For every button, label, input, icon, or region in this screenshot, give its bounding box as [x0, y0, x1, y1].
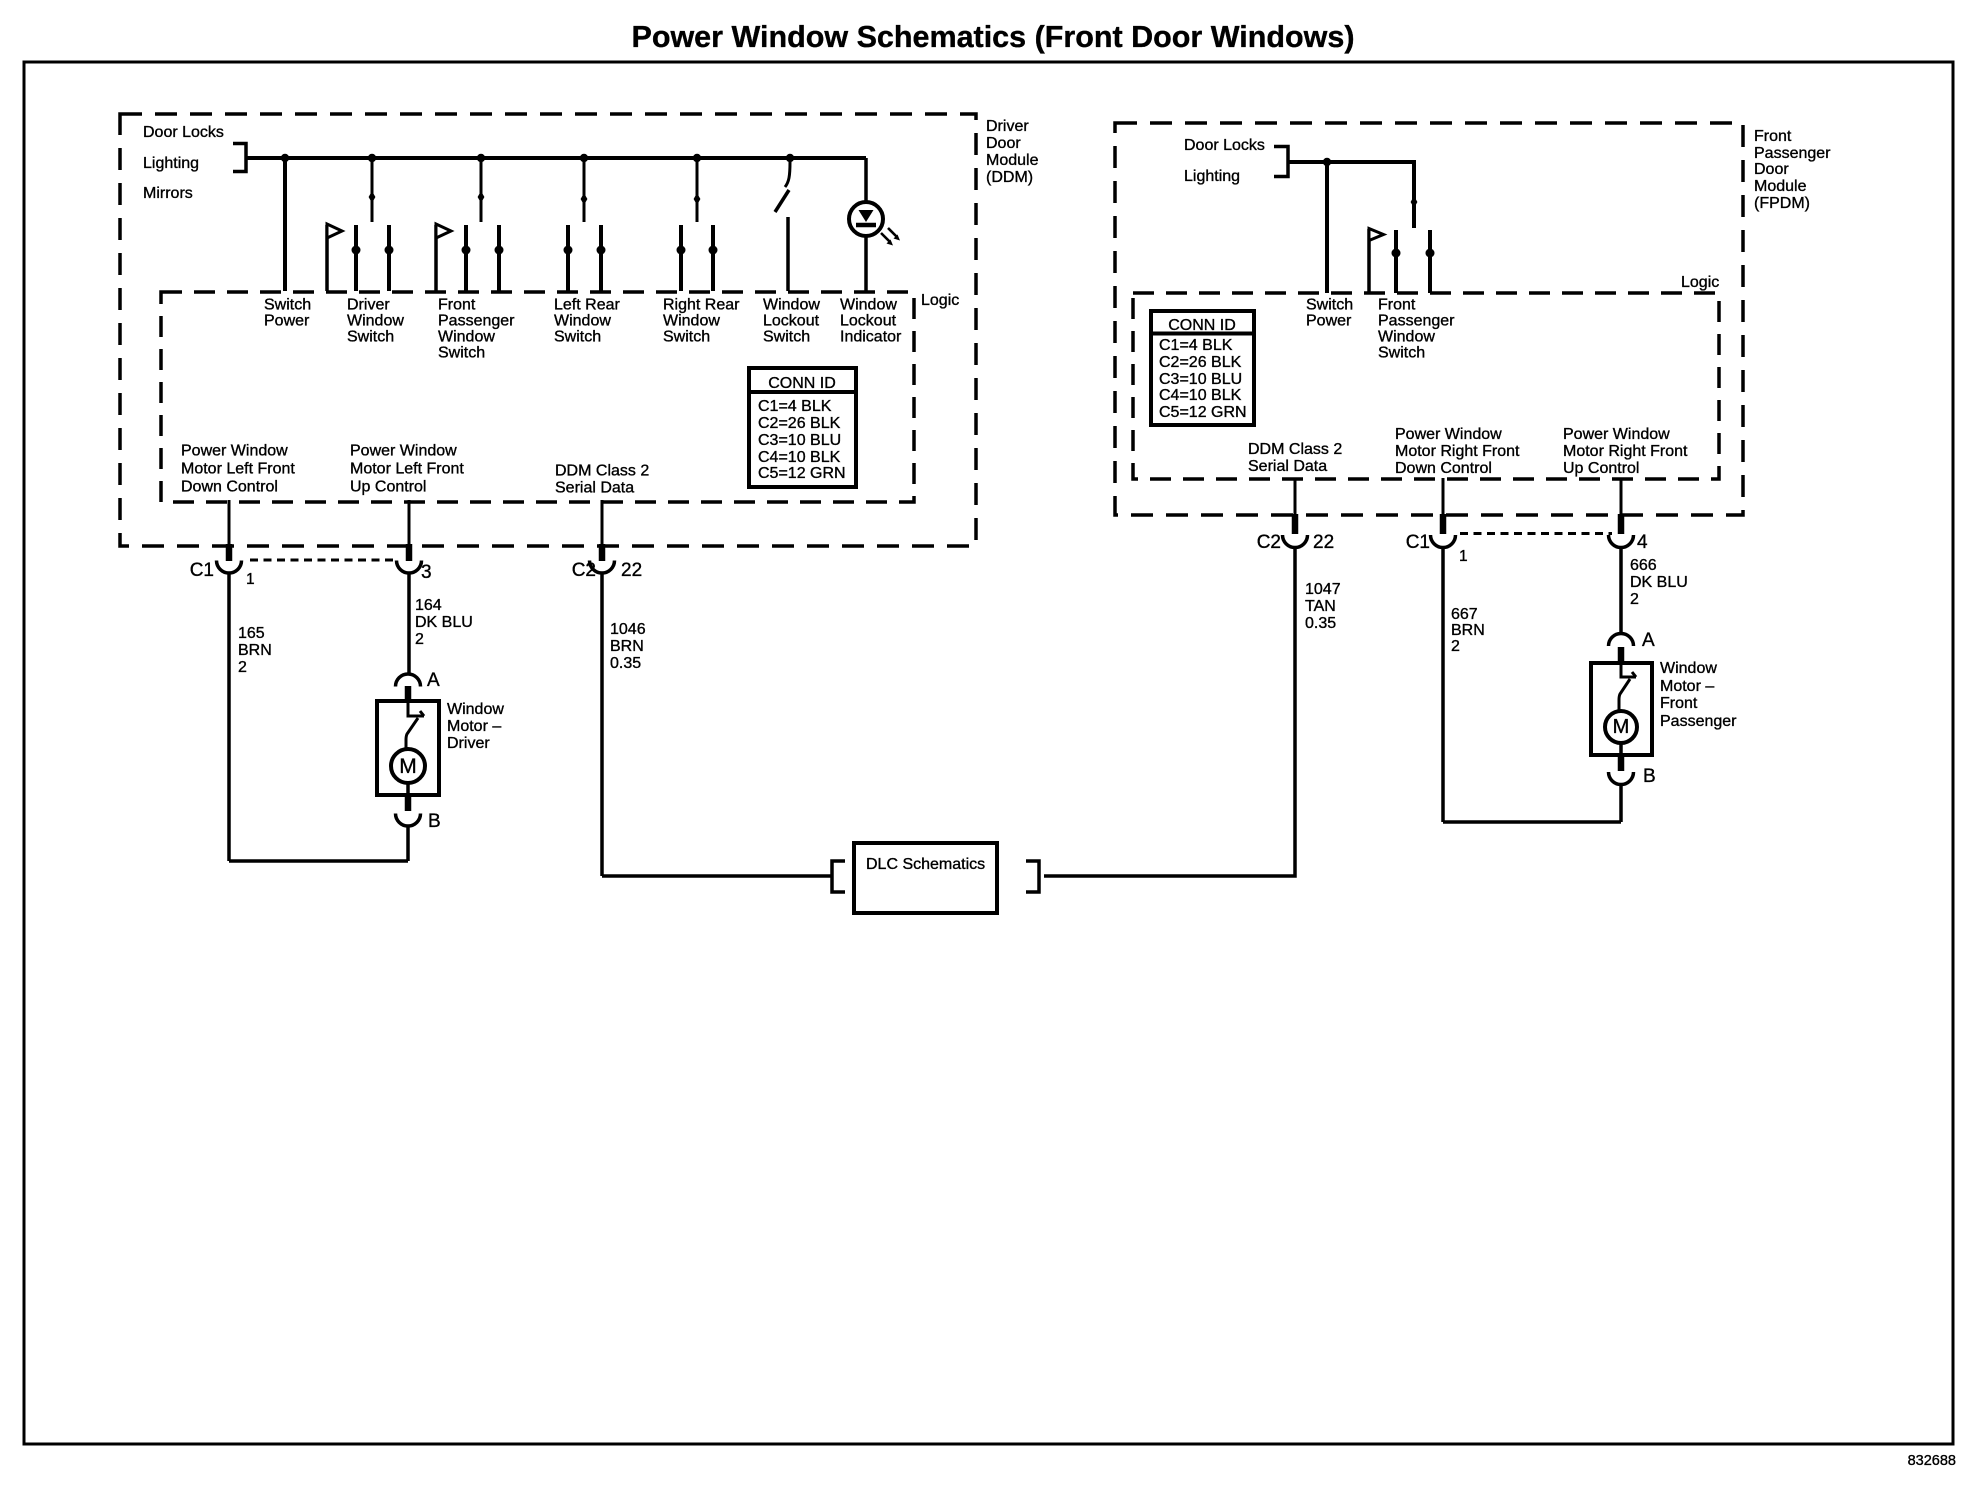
junction dot switch power	[281, 154, 289, 162]
svg-text:Door Locks: Door Locks	[1184, 137, 1265, 154]
svg-text:2: 2	[415, 631, 424, 648]
svg-text:Window: Window	[763, 297, 820, 314]
node labels Door Locks / Lighting / Mirrors	[143, 124, 224, 202]
svg-text:2: 2	[1630, 591, 1639, 608]
connector C2 arc FPDM	[1283, 535, 1308, 548]
wire serial data out of FPDM logic	[1294, 478, 1297, 514]
connector C1 arc	[217, 561, 242, 574]
svg-text:Switch: Switch	[438, 345, 485, 362]
svg-text:Left Rear: Left Rear	[554, 297, 620, 314]
label Driver Window Switch	[347, 297, 404, 346]
driver window switch S1	[327, 158, 394, 291]
svg-text:Motor –: Motor –	[1660, 678, 1714, 695]
connector A passenger motor	[1609, 634, 1634, 647]
svg-text:666: 666	[1630, 557, 1657, 574]
connector B passenger motor	[1609, 772, 1634, 785]
label Power Window Motor Right Front Up Control	[1563, 426, 1688, 477]
svg-text:Motor Right Front: Motor Right Front	[1395, 443, 1520, 460]
connector grouping dotted line C1	[250, 559, 396, 562]
bracket to Door Locks/Lighting (FPDM)	[1274, 147, 1288, 177]
CONN ID table DDM	[749, 368, 856, 487]
label Front Passenger Window Switch (FPDM)	[1378, 297, 1455, 362]
junction dot FPDM bus	[1323, 158, 1331, 166]
wire down control out of FPDM logic	[1442, 478, 1445, 514]
connector C2 arc	[590, 561, 615, 574]
svg-text:Module: Module	[986, 152, 1039, 169]
label DDM Class 2 Serial Data (FPDM)	[1248, 441, 1342, 475]
svg-text:Window: Window	[347, 313, 404, 330]
svg-text:Door: Door	[986, 135, 1021, 152]
pin C1-3 DDM	[406, 544, 413, 561]
label wire 666 DK BLU 2	[1630, 557, 1688, 608]
window lockout indicator LED D1	[849, 158, 900, 291]
svg-text:0.35: 0.35	[1305, 615, 1336, 632]
window lockout switch S5 (open)	[775, 162, 790, 291]
label Window Lockout Switch	[763, 297, 820, 346]
label Power Window Motor Left Front Down Control	[181, 443, 295, 496]
svg-text:Switch: Switch	[554, 329, 601, 346]
svg-text:A: A	[427, 670, 440, 691]
svg-text:Module: Module	[1754, 178, 1807, 195]
svg-text:165: 165	[238, 625, 265, 642]
svg-text:Lighting: Lighting	[143, 155, 199, 172]
svg-text:1047: 1047	[1305, 581, 1341, 598]
wire up control out of FPDM logic	[1620, 478, 1623, 514]
svg-text:Lockout: Lockout	[763, 313, 820, 330]
junction dot right rear window switch	[693, 154, 701, 162]
svg-text:Passenger: Passenger	[438, 313, 515, 330]
svg-text:Switch: Switch	[663, 329, 710, 346]
svg-text:1046: 1046	[610, 621, 646, 638]
connector A driver motor	[396, 674, 421, 687]
connector arc pin 3	[397, 561, 422, 573]
svg-text:DLC Schematics: DLC Schematics	[866, 856, 985, 873]
module box FPDM (dashed)	[1115, 123, 1743, 515]
svg-text:C5=12 GRN: C5=12 GRN	[1159, 404, 1247, 421]
svg-text:TAN: TAN	[1305, 598, 1336, 615]
svg-text:C4=10 BLK: C4=10 BLK	[1159, 387, 1242, 404]
svg-text:C2: C2	[572, 560, 596, 581]
wire motor B return	[406, 826, 410, 862]
svg-text:Up Control: Up Control	[1563, 460, 1639, 477]
svg-text:A: A	[1642, 630, 1655, 651]
svg-text:B: B	[1643, 766, 1656, 787]
svg-text:667: 667	[1451, 606, 1478, 623]
label Logic (FPDM)	[1681, 274, 1719, 291]
svg-text:C2: C2	[1257, 532, 1281, 553]
pin B passenger motor	[1618, 755, 1625, 771]
svg-text:BRN: BRN	[1451, 622, 1485, 639]
pin B driver motor	[405, 795, 412, 811]
front passenger window switch S6	[1369, 196, 1435, 293]
svg-text:Power Window: Power Window	[1563, 426, 1670, 443]
wire 165 BRN 2	[227, 573, 231, 862]
window motor driver M1	[377, 701, 439, 795]
svg-text:1: 1	[1459, 548, 1468, 565]
svg-text:Front: Front	[1754, 128, 1792, 145]
svg-text:Power Window: Power Window	[350, 443, 457, 460]
wire bottom return passenger circuit	[1443, 820, 1621, 824]
label Window Motor - Driver	[447, 701, 504, 752]
logic block DDM (dashed)	[161, 292, 914, 502]
svg-text:Front: Front	[438, 297, 476, 314]
connector C1 arc FPDM	[1431, 535, 1456, 548]
wire up control out of logic	[408, 500, 411, 544]
svg-text:Right Rear: Right Rear	[663, 297, 740, 314]
svg-text:Passenger: Passenger	[1660, 713, 1737, 730]
label DDM Class 2 Serial Data	[555, 463, 649, 497]
svg-text:Front: Front	[1378, 297, 1416, 314]
svg-text:DDM Class 2: DDM Class 2	[1248, 441, 1342, 458]
DLC Schematics box	[854, 843, 997, 913]
pin C1-4 FPDM	[1618, 514, 1625, 534]
label Switch Power	[264, 297, 311, 330]
junction dot driver window switch	[368, 154, 376, 162]
svg-text:Indicator: Indicator	[840, 329, 902, 346]
junction dot window lockout switch	[786, 154, 794, 162]
label Power Window Motor Left Front Up Control	[350, 443, 464, 496]
wire down control out of logic	[228, 500, 231, 544]
svg-text:Down Control: Down Control	[181, 479, 278, 496]
wire bus FPDM switch power feed	[1288, 162, 1414, 228]
pin C2-22 DDM	[599, 544, 606, 561]
wire serial data horizontal to DLC	[602, 874, 832, 878]
svg-text:Door Locks: Door Locks	[143, 124, 224, 141]
svg-text:C3=10 BLU: C3=10 BLU	[1159, 371, 1242, 388]
svg-text:Serial Data: Serial Data	[1248, 458, 1327, 475]
label Right Rear Window Switch	[663, 297, 740, 346]
svg-text:Motor Left Front: Motor Left Front	[350, 461, 464, 478]
svg-text:Window: Window	[1660, 660, 1717, 677]
svg-text:C2=26 BLK: C2=26 BLK	[1159, 354, 1242, 371]
wire switch power drop	[283, 158, 287, 291]
svg-text:Passenger: Passenger	[1378, 313, 1455, 330]
wire motor B return FPDM	[1619, 784, 1623, 822]
svg-text:1: 1	[246, 571, 255, 588]
svg-text:DK BLU: DK BLU	[415, 614, 473, 631]
junction dot front passenger window switch	[477, 154, 485, 162]
svg-text:Power Window: Power Window	[1395, 426, 1502, 443]
svg-text:Lockout: Lockout	[840, 313, 897, 330]
svg-text:BRN: BRN	[238, 642, 272, 659]
svg-text:Power: Power	[264, 313, 310, 330]
connector grouping dotted line FPDM	[1460, 532, 1612, 535]
junction dot left rear window switch	[580, 154, 588, 162]
svg-text:(FPDM): (FPDM)	[1754, 195, 1810, 212]
svg-text:Switch: Switch	[347, 329, 394, 346]
svg-text:0.35: 0.35	[610, 655, 641, 672]
off-page bracket left of DLC	[832, 861, 845, 892]
wire 1046 BRN 0.35	[600, 573, 604, 877]
label Window Lockout Indicator	[840, 297, 902, 346]
wire 164 DK BLU 2	[407, 573, 411, 675]
svg-text:Motor Left Front: Motor Left Front	[181, 461, 295, 478]
pin C1-1 DDM	[226, 544, 233, 561]
logic block FPDM (dashed)	[1133, 293, 1719, 479]
module box DDM (dashed)	[120, 114, 976, 546]
right rear window switch S4	[677, 158, 718, 291]
pin C2-22 FPDM	[1292, 514, 1299, 534]
label wire 1046 BRN 0.35	[610, 621, 646, 672]
svg-text:2: 2	[238, 659, 247, 676]
label Power Window Motor Right Front Down Control	[1395, 426, 1520, 477]
svg-text:Window: Window	[447, 701, 504, 718]
label wire 165 BRN 2	[238, 625, 272, 676]
label Front Passenger Window Switch	[438, 297, 515, 362]
svg-text:Power Window Schematics (Front: Power Window Schematics (Front Door Wind…	[631, 20, 1354, 54]
svg-text:Switch: Switch	[264, 297, 311, 314]
svg-text:Lighting: Lighting	[1184, 168, 1240, 185]
svg-text:Window: Window	[840, 297, 897, 314]
svg-text:Window: Window	[1378, 329, 1435, 346]
svg-text:C1=4 BLK: C1=4 BLK	[1159, 337, 1233, 354]
node labels Door Locks / Lighting (FPDM)	[1184, 137, 1265, 185]
svg-text:Driver: Driver	[347, 297, 390, 314]
svg-text:Switch: Switch	[1306, 297, 1353, 314]
svg-text:3: 3	[421, 562, 432, 583]
svg-text:Up Control: Up Control	[350, 479, 426, 496]
svg-text:CONN ID: CONN ID	[768, 375, 836, 392]
svg-text:BRN: BRN	[610, 638, 644, 655]
connector arc pin 4 FPDM	[1609, 535, 1634, 548]
svg-text:Window: Window	[438, 329, 495, 346]
svg-text:(DDM): (DDM)	[986, 169, 1033, 186]
svg-text:Passenger: Passenger	[1754, 145, 1831, 162]
svg-text:DDM Class 2: DDM Class 2	[555, 463, 649, 480]
label wire 667 BRN 2	[1451, 606, 1485, 655]
svg-text:C5=12 GRN: C5=12 GRN	[758, 465, 846, 482]
svg-text:C4=10 BLK: C4=10 BLK	[758, 449, 841, 466]
svg-text:164: 164	[415, 597, 442, 614]
bracket to Door Locks/Lighting/Mirrors	[233, 144, 246, 172]
svg-text:Front: Front	[1660, 695, 1698, 712]
wire bottom return driver circuit	[229, 859, 408, 863]
svg-text:C2=26 BLK: C2=26 BLK	[758, 415, 841, 432]
pin A driver motor	[405, 686, 412, 701]
svg-text:DK BLU: DK BLU	[1630, 574, 1688, 591]
label Left Rear Window Switch	[554, 297, 620, 346]
svg-text:CONN ID: CONN ID	[1168, 317, 1236, 334]
svg-text:Logic: Logic	[921, 292, 959, 309]
wire serial data DLC to FPDM	[1044, 547, 1295, 877]
svg-text:C1: C1	[190, 560, 214, 581]
svg-text:Power Window: Power Window	[181, 443, 288, 460]
pin A passenger motor	[1618, 647, 1625, 663]
svg-text:C1=4 BLK: C1=4 BLK	[758, 398, 832, 415]
svg-text:Motor Right Front: Motor Right Front	[1563, 443, 1688, 460]
label wire 1047 TAN 0.35	[1305, 581, 1341, 632]
svg-text:Motor –: Motor –	[447, 718, 501, 735]
svg-text:C1: C1	[1406, 532, 1430, 553]
svg-text:Driver: Driver	[447, 735, 490, 752]
svg-text:Door: Door	[1754, 161, 1789, 178]
label Window Motor - Front Passenger	[1660, 660, 1737, 730]
svg-text:Driver: Driver	[986, 118, 1029, 135]
svg-text:C3=10 BLU: C3=10 BLU	[758, 432, 841, 449]
svg-text:22: 22	[621, 560, 642, 581]
svg-text:Window: Window	[663, 313, 720, 330]
label wire 164 DK BLU 2	[415, 597, 473, 648]
svg-text:M: M	[399, 755, 417, 778]
wire 667 BRN 2	[1441, 547, 1445, 823]
svg-text:4: 4	[1637, 532, 1648, 553]
connector B driver motor	[396, 814, 421, 827]
svg-text:B: B	[428, 811, 441, 832]
svg-text:Power: Power	[1306, 313, 1352, 330]
wire 666 DK BLU 2	[1619, 547, 1623, 634]
wire switch power drop FPDM	[1325, 162, 1329, 293]
svg-text:Switch: Switch	[1378, 345, 1425, 362]
svg-text:Mirrors: Mirrors	[143, 185, 193, 202]
svg-text:Down Control: Down Control	[1395, 460, 1492, 477]
svg-text:2: 2	[1451, 638, 1460, 655]
module label FPDM	[1754, 128, 1831, 212]
window motor front passenger M2	[1591, 663, 1652, 755]
module label DDM	[986, 118, 1039, 186]
svg-text:Switch: Switch	[763, 329, 810, 346]
label Switch Power (FPDM)	[1306, 297, 1353, 330]
svg-text:22: 22	[1313, 532, 1334, 553]
svg-text:832688: 832688	[1908, 1453, 1956, 1469]
svg-text:Logic: Logic	[1681, 274, 1719, 291]
wire bus DDM switch power feed	[246, 156, 866, 160]
off-page bracket right of DLC	[1026, 861, 1039, 892]
wire serial data out of logic	[601, 500, 604, 544]
svg-text:Window: Window	[554, 313, 611, 330]
left rear window switch S3	[564, 158, 606, 291]
CONN ID table FPDM	[1151, 311, 1254, 425]
pin C1-1 FPDM	[1440, 514, 1447, 534]
front passenger window switch S2	[436, 158, 504, 291]
svg-text:M: M	[1613, 716, 1630, 738]
svg-text:Serial Data: Serial Data	[555, 480, 634, 497]
